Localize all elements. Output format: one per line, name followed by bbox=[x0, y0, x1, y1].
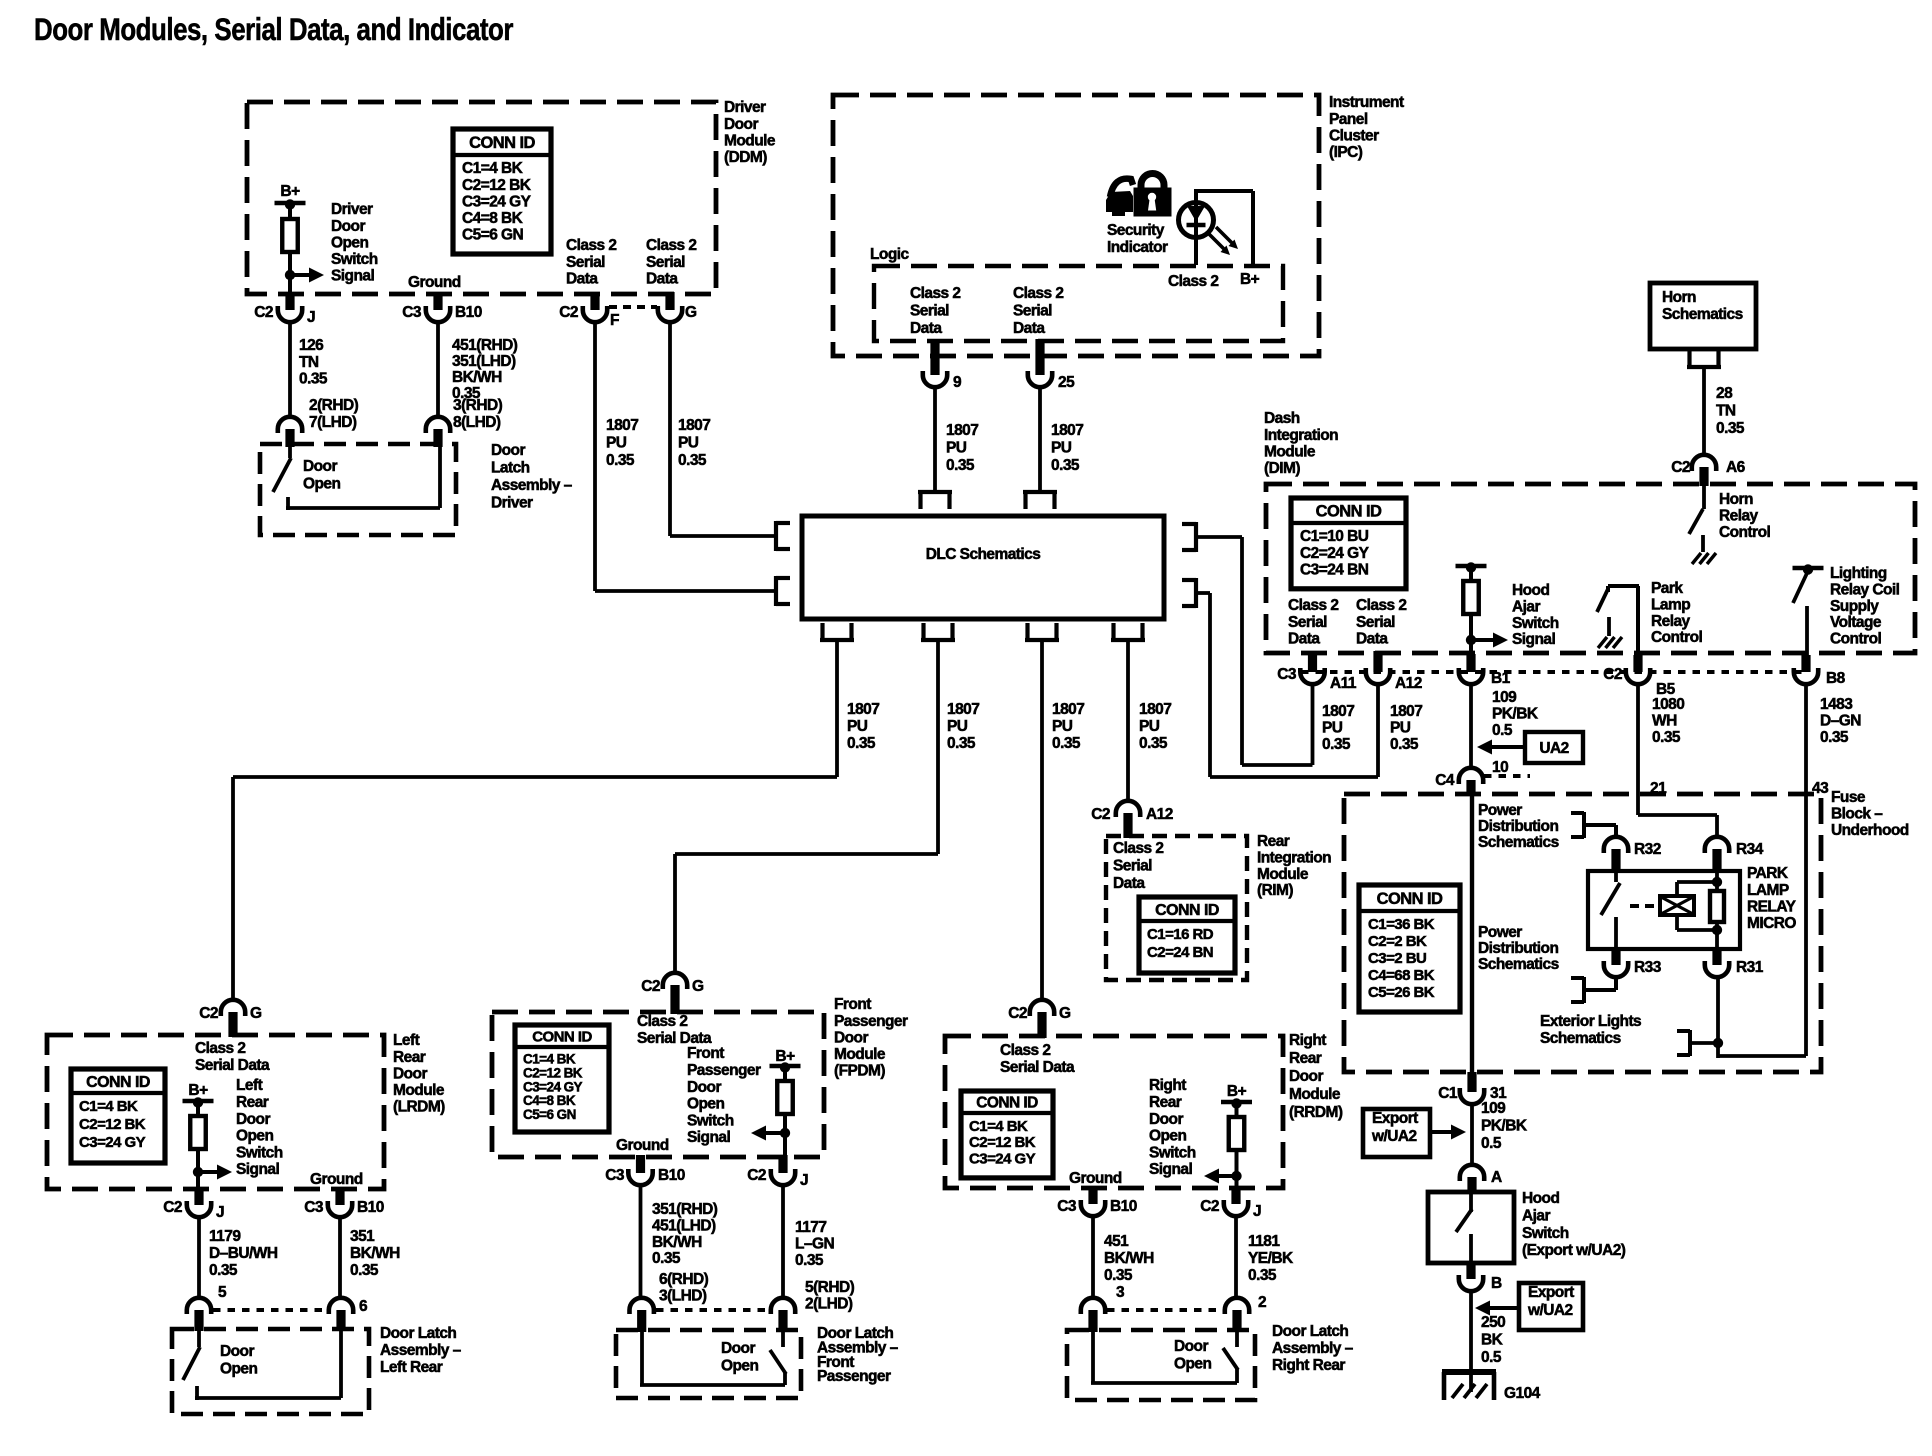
svg-text:C2=24 GY: C2=24 GY bbox=[1300, 545, 1370, 562]
label: Class 2 (LED drive) bbox=[1168, 273, 1218, 290]
svg-text:Rear: Rear bbox=[1257, 833, 1290, 850]
label: B+ (IPC) bbox=[1240, 271, 1260, 288]
label: Dash Integration Module (DIM) bbox=[1264, 410, 1338, 477]
option box: UA2 bbox=[1525, 732, 1583, 763]
svg-text:Data: Data bbox=[1288, 630, 1320, 647]
module box: Dash Integration Module (DIM) bbox=[1266, 484, 1915, 653]
svg-text:Relay: Relay bbox=[1719, 507, 1759, 524]
label: pin 43 bbox=[1812, 780, 1829, 797]
svg-text:w/UA2: w/UA2 bbox=[1527, 1302, 1573, 1319]
svg-text:Supply: Supply bbox=[1830, 598, 1879, 615]
connector R33 (park lamp relay) bbox=[1604, 949, 1662, 977]
svg-text:B+: B+ bbox=[280, 183, 300, 200]
svg-text:Signal: Signal bbox=[236, 1161, 279, 1178]
label: 1179 D-BU/WH 0.35 bbox=[209, 1228, 278, 1279]
title: Door Modules, Serial Data, and Indicator bbox=[34, 11, 513, 47]
label: Fuse Block - Underhood bbox=[1831, 789, 1909, 839]
svg-text:Class 2: Class 2 bbox=[637, 1013, 687, 1030]
svg-text:C2: C2 bbox=[1200, 1198, 1219, 1215]
svg-text:Serial: Serial bbox=[646, 254, 685, 271]
svg-text:PU: PU bbox=[1052, 718, 1073, 735]
svg-text:Hood: Hood bbox=[1522, 1190, 1559, 1207]
svg-text:F: F bbox=[610, 312, 619, 329]
label: pin 2(RHD) 7(LHD) bbox=[309, 397, 359, 431]
label: 1807 PU 0.35 (FPDM wire) bbox=[947, 701, 979, 752]
svg-text:1807: 1807 bbox=[1139, 701, 1171, 718]
wire: R31 to exterior lights feed bbox=[1692, 977, 1723, 1058]
svg-text:Exterior Lights: Exterior Lights bbox=[1540, 1013, 1641, 1030]
conn table: LRDM CONN ID bbox=[71, 1069, 165, 1163]
node: hood ajar signal junction bbox=[1466, 635, 1476, 645]
svg-text:CONN ID: CONN ID bbox=[1377, 890, 1443, 908]
dotted connector body line (right rear latch) bbox=[1107, 1308, 1223, 1312]
svg-text:PU: PU bbox=[947, 718, 968, 735]
component box: Door Latch Assembly - Right Rear bbox=[1067, 1330, 1255, 1400]
svg-text:C3=24 GY: C3=24 GY bbox=[523, 1079, 583, 1094]
svg-text:G: G bbox=[1059, 1005, 1071, 1022]
svg-text:0.5: 0.5 bbox=[1481, 1135, 1502, 1152]
svg-text:Door: Door bbox=[724, 116, 758, 133]
svg-text:TN: TN bbox=[1716, 402, 1736, 419]
label: Driver Door Module (DDM) bbox=[724, 99, 776, 166]
svg-text:C2: C2 bbox=[641, 978, 660, 995]
svg-text:Switch: Switch bbox=[1522, 1225, 1569, 1242]
wire: circuit 451 BK/WH (RRDM ground) bbox=[1091, 1216, 1095, 1298]
node: driver door open switch signal junction bbox=[285, 270, 295, 280]
connector pin A (hood ajar switch) bbox=[1460, 1165, 1502, 1194]
label: 1807 PU 0.35 (A12 wire) bbox=[1390, 703, 1422, 753]
svg-text:D–BU/WH: D–BU/WH bbox=[209, 1245, 278, 1262]
svg-text:PU: PU bbox=[1322, 719, 1343, 736]
svg-text:43: 43 bbox=[1812, 780, 1829, 797]
svg-text:Class 2: Class 2 bbox=[195, 1040, 245, 1057]
svg-text:B1: B1 bbox=[1491, 670, 1511, 687]
svg-text:(RIM): (RIM) bbox=[1257, 882, 1293, 899]
svg-text:G: G bbox=[692, 978, 704, 995]
pin: horn schematics output bbox=[1687, 350, 1721, 367]
label: Horn Relay Control bbox=[1719, 491, 1770, 541]
svg-text:1807: 1807 bbox=[1051, 422, 1083, 439]
svg-text:0.5: 0.5 bbox=[1492, 722, 1513, 739]
svg-text:Voltage: Voltage bbox=[1830, 614, 1882, 631]
label: 109 PK/BK 0.5 (export) bbox=[1481, 1100, 1528, 1152]
svg-text:Data: Data bbox=[566, 270, 598, 287]
label: 1807 PU 0.35 (pin F wire) bbox=[606, 417, 638, 469]
label: Right Rear Door Module (RRDM) bbox=[1289, 1032, 1343, 1121]
label: 126 TN 0.35 bbox=[299, 337, 328, 387]
svg-text:Front: Front bbox=[687, 1045, 724, 1062]
svg-text:B: B bbox=[1491, 1275, 1502, 1292]
component box: Door Latch Assembly - Front Passenger bbox=[616, 1330, 801, 1398]
svg-text:Door: Door bbox=[1174, 1338, 1208, 1355]
arrow: Front Passenger Door Open Switch Signal bbox=[687, 1045, 785, 1146]
label: 351(RHD) 451(LHD) BK/WH 0.35 bbox=[652, 1201, 718, 1267]
svg-text:C3=24 GY: C3=24 GY bbox=[969, 1150, 1036, 1167]
svg-text:J: J bbox=[307, 309, 315, 326]
pin: DLC bottom 4 bbox=[1111, 623, 1145, 640]
connector C2 pin J (RRDM) bbox=[1200, 1186, 1261, 1220]
svg-text:0.35: 0.35 bbox=[209, 1262, 238, 1279]
mechanical link (relay) bbox=[1630, 904, 1659, 908]
label: 1080 WH 0.35 bbox=[1652, 696, 1684, 746]
svg-text:Lighting: Lighting bbox=[1830, 565, 1887, 582]
component box: Door Latch Assembly - Left Rear bbox=[172, 1329, 369, 1414]
label: 250 BK 0.5 bbox=[1481, 1314, 1505, 1366]
svg-text:C2: C2 bbox=[199, 1005, 218, 1022]
svg-text:C2: C2 bbox=[1603, 666, 1622, 683]
svg-text:BK/WH: BK/WH bbox=[652, 1234, 702, 1251]
horn schematics reference box bbox=[1650, 283, 1756, 349]
svg-text:Serial Data: Serial Data bbox=[1000, 1059, 1075, 1076]
svg-text:(DDM): (DDM) bbox=[724, 149, 767, 166]
label: 1807 PU 0.35 (pin G wire) bbox=[678, 417, 710, 469]
connector C4 pin 10 (fuse block) bbox=[1435, 768, 1483, 796]
wire: signal to DDM pin J bbox=[288, 275, 292, 294]
conn table: DDM CONN ID bbox=[453, 129, 551, 254]
switch: Horn Relay Control driver bbox=[1689, 486, 1716, 564]
pin: DLC left 2 bbox=[776, 576, 790, 606]
pin: DLC top 1 bbox=[918, 492, 952, 509]
node: LRDM signal junction bbox=[193, 1167, 203, 1177]
label: Class 2 Serial Data (RIM) bbox=[1113, 840, 1163, 892]
resistor: right rear door open switch pull-up bbox=[1229, 1102, 1245, 1176]
svg-text:Power: Power bbox=[1478, 924, 1522, 941]
label: 109 PK/BK 0.5 bbox=[1492, 689, 1539, 739]
svg-text:1807: 1807 bbox=[1390, 703, 1422, 720]
svg-text:6: 6 bbox=[359, 1298, 368, 1315]
label: Power Distribution Schematics (top) bbox=[1478, 802, 1559, 851]
module box: Rear Integration Module (RIM) bbox=[1106, 836, 1247, 980]
svg-text:D–GN: D–GN bbox=[1820, 712, 1861, 729]
svg-text:Class 2: Class 2 bbox=[1013, 285, 1063, 302]
wire: 1807 PU DLC to RRDM bbox=[1040, 642, 1044, 1000]
svg-text:WH: WH bbox=[1652, 712, 1677, 729]
svg-text:B+: B+ bbox=[1240, 271, 1260, 288]
svg-text:1807: 1807 bbox=[1052, 701, 1084, 718]
svg-text:C2: C2 bbox=[559, 304, 578, 321]
conn table: RRDM CONN ID bbox=[961, 1091, 1053, 1178]
module box: Left Rear Door Module (LRDM) bbox=[47, 1035, 384, 1189]
svg-text:C2: C2 bbox=[1091, 806, 1110, 823]
label: Hood Ajar Switch (Export w/UA2) bbox=[1522, 1190, 1626, 1259]
svg-text:C1=4 BK: C1=4 BK bbox=[523, 1052, 576, 1067]
label: 1483 D-GN 0.35 bbox=[1820, 696, 1861, 746]
switch: Door Open (front passenger) bbox=[640, 1332, 786, 1385]
svg-text:C3=24 GY: C3=24 GY bbox=[462, 193, 532, 210]
resistor: hood ajar switch pull-up bbox=[1463, 566, 1479, 640]
connector C2 pin A12 (RIM) bbox=[1091, 801, 1173, 838]
svg-text:5(RHD): 5(RHD) bbox=[805, 1279, 855, 1296]
label: pin 21 bbox=[1650, 780, 1667, 797]
connector C3 pin A11 (DIM) bbox=[1277, 651, 1357, 692]
svg-text:0.35: 0.35 bbox=[678, 452, 707, 469]
svg-text:MICRO: MICRO bbox=[1747, 915, 1796, 932]
svg-text:CONN ID: CONN ID bbox=[532, 1028, 592, 1045]
label: Park Lamp Relay Control bbox=[1651, 580, 1702, 646]
label: Logic bbox=[870, 246, 910, 263]
svg-text:C3=2 BU: C3=2 BU bbox=[1368, 950, 1426, 967]
svg-text:R33: R33 bbox=[1634, 959, 1662, 976]
svg-text:C3: C3 bbox=[1057, 1198, 1077, 1215]
svg-text:A12: A12 bbox=[1146, 806, 1173, 823]
svg-text:C2: C2 bbox=[1671, 459, 1690, 476]
svg-text:109: 109 bbox=[1492, 689, 1517, 706]
wire: circuit 1177 L-GN bbox=[781, 1185, 785, 1298]
svg-text:0.35: 0.35 bbox=[1322, 736, 1351, 753]
svg-text:Open: Open bbox=[1149, 1128, 1186, 1145]
svg-text:Lamp: Lamp bbox=[1651, 596, 1690, 613]
connector C2 pin G (LRDM) bbox=[199, 1000, 262, 1037]
svg-text:351: 351 bbox=[350, 1228, 375, 1245]
svg-text:Module: Module bbox=[834, 1046, 886, 1063]
svg-text:0.35: 0.35 bbox=[1716, 420, 1745, 437]
conn table: RIM CONN ID bbox=[1139, 897, 1235, 973]
svg-text:Open: Open bbox=[331, 234, 368, 251]
svg-text:Class 2: Class 2 bbox=[1356, 597, 1406, 614]
switch: Lighting Relay Coil Supply Voltage Control bbox=[1793, 571, 1808, 657]
arrow: Driver Door Open Switch Signal bbox=[290, 201, 378, 284]
svg-text:Schematics: Schematics bbox=[1540, 1030, 1621, 1047]
svg-text:1807: 1807 bbox=[947, 701, 979, 718]
svg-text:Class 2: Class 2 bbox=[1168, 273, 1218, 290]
label: 1807 PU 0.35 (LRDM wire) bbox=[847, 701, 879, 752]
resistor: left rear door open switch pull-up bbox=[190, 1101, 206, 1172]
pointer bracket: exterior lights bbox=[1677, 1030, 1690, 1056]
svg-text:Export: Export bbox=[1372, 1110, 1418, 1127]
svg-text:BK/WH: BK/WH bbox=[1104, 1250, 1154, 1267]
svg-text:0.35: 0.35 bbox=[946, 457, 975, 474]
option box: Export w/UA2 (lower) bbox=[1519, 1283, 1583, 1330]
wire: LRDM signal to pin J bbox=[196, 1172, 200, 1189]
svg-text:Switch: Switch bbox=[1512, 615, 1559, 632]
wire: circuit 1181 YE/BK bbox=[1234, 1216, 1238, 1298]
connector C2 pin J (LRDM) bbox=[163, 1187, 224, 1221]
svg-text:Front: Front bbox=[834, 996, 871, 1013]
svg-text:C1: C1 bbox=[1438, 1085, 1458, 1102]
connector pin 25 (IPC) bbox=[1028, 339, 1075, 391]
label: Security Indicator bbox=[1107, 222, 1168, 256]
svg-text:Security: Security bbox=[1107, 222, 1165, 239]
svg-text:L–GN: L–GN bbox=[795, 1235, 834, 1252]
svg-text:PU: PU bbox=[1390, 719, 1411, 736]
conn table: FPDM CONN ID bbox=[515, 1025, 609, 1132]
svg-text:w/UA2: w/UA2 bbox=[1371, 1128, 1417, 1145]
svg-text:Switch: Switch bbox=[687, 1112, 734, 1129]
svg-text:TN: TN bbox=[299, 354, 319, 371]
dotted connector body line (DIM bottom row) bbox=[1301, 670, 1806, 674]
svg-text:9: 9 bbox=[953, 374, 962, 391]
svg-text:Signal: Signal bbox=[1512, 631, 1555, 648]
svg-text:Hood: Hood bbox=[1512, 582, 1549, 599]
label: Class 2 Serial Data (IPC pin 25) bbox=[1013, 285, 1063, 337]
label: Door Latch Assembly - Front Passenger bbox=[817, 1325, 899, 1385]
label: 1181 YE/BK 0.35 bbox=[1248, 1233, 1294, 1284]
svg-text:Block –: Block – bbox=[1831, 805, 1883, 822]
component box: DLC Schematics bbox=[802, 516, 1164, 619]
wire: circuit 351/451 BK/WH (FPDM ground) bbox=[639, 1185, 643, 1298]
label: DLC Schematics bbox=[926, 546, 1041, 563]
svg-text:Passenger: Passenger bbox=[687, 1062, 761, 1079]
svg-text:351(RHD): 351(RHD) bbox=[652, 1201, 718, 1218]
svg-text:C3=24 BN: C3=24 BN bbox=[1300, 561, 1369, 578]
label: Class 2 Serial Data (DDM pin F) bbox=[566, 237, 616, 287]
svg-text:(RRDM): (RRDM) bbox=[1289, 1104, 1343, 1121]
svg-text:C1=4 BK: C1=4 BK bbox=[462, 160, 524, 177]
svg-text:Signal: Signal bbox=[331, 268, 374, 285]
arrow: Right Rear Door Open Switch Signal bbox=[1149, 1077, 1237, 1183]
svg-text:DLC Schematics: DLC Schematics bbox=[926, 546, 1041, 563]
svg-text:BK: BK bbox=[1481, 1331, 1504, 1348]
svg-text:Control: Control bbox=[1830, 630, 1881, 647]
connector C2 pin F (DDM) bbox=[559, 292, 619, 329]
svg-text:1179: 1179 bbox=[209, 1228, 241, 1245]
switch: hood ajar bbox=[1456, 1192, 1472, 1263]
connector C1 pin 31 (fuse block) bbox=[1438, 1072, 1507, 1104]
svg-text:J: J bbox=[1253, 1203, 1261, 1220]
svg-text:PU: PU bbox=[946, 439, 967, 456]
svg-text:Driver: Driver bbox=[331, 201, 373, 218]
icon: security indicator (car and padlock) bbox=[1106, 174, 1171, 217]
svg-text:A6: A6 bbox=[1726, 459, 1746, 476]
svg-text:Dash: Dash bbox=[1264, 410, 1300, 427]
label: Class 2 Serial Data (DDM pin G) bbox=[646, 237, 696, 287]
wire: 109 PK/BK to hood ajar switch bbox=[1470, 1104, 1474, 1165]
connector pin 9 (IPC) bbox=[923, 339, 962, 391]
svg-text:Module: Module bbox=[1289, 1086, 1341, 1103]
svg-text:Integration: Integration bbox=[1257, 849, 1331, 866]
svg-text:Door: Door bbox=[491, 442, 525, 459]
connector C2 pin A6 (horn relay control) bbox=[1671, 455, 1745, 486]
pin: DLC left 1 bbox=[776, 521, 790, 551]
arrow: export option applies (ground side) bbox=[1475, 1301, 1519, 1316]
svg-text:Open: Open bbox=[236, 1128, 273, 1145]
label: pins 5(RHD) 2(LHD) bbox=[805, 1279, 855, 1312]
label: 1177 L-GN 0.35 bbox=[795, 1219, 834, 1269]
svg-text:Horn: Horn bbox=[1719, 491, 1753, 508]
switch: Park Lamp Relay Control driver bbox=[1597, 586, 1639, 657]
logic box (IPC) bbox=[874, 266, 1283, 341]
wire: 1807 PU pin 9 to DLC bbox=[933, 387, 937, 492]
pin: DLC right 1 bbox=[1182, 522, 1196, 552]
svg-text:7(LHD): 7(LHD) bbox=[309, 414, 357, 431]
module box: Fuse Block - Underhood bbox=[1344, 794, 1821, 1072]
B+ supply symbol (DDM) bbox=[275, 183, 306, 210]
svg-text:C2=24 BN: C2=24 BN bbox=[1147, 944, 1213, 961]
svg-text:Schematics: Schematics bbox=[1478, 834, 1559, 851]
svg-text:6(RHD): 6(RHD) bbox=[659, 1271, 709, 1288]
svg-text:Module: Module bbox=[1257, 866, 1309, 883]
wire: FPDM signal to pin J bbox=[783, 1133, 787, 1157]
label: Instrument Panel Cluster (IPC) bbox=[1329, 94, 1404, 161]
svg-text:Ajar: Ajar bbox=[1522, 1207, 1550, 1224]
svg-text:Switch: Switch bbox=[1149, 1144, 1196, 1161]
svg-text:C3: C3 bbox=[402, 304, 422, 321]
label: Door Latch Assembly - Left Rear bbox=[380, 1325, 462, 1376]
label: Class 2 Serial Data (RRDM) bbox=[1000, 1042, 1075, 1076]
svg-text:CONN ID: CONN ID bbox=[1316, 502, 1382, 520]
svg-text:Open: Open bbox=[687, 1096, 724, 1113]
label: Ground (FPDM) bbox=[616, 1137, 669, 1154]
svg-text:C2: C2 bbox=[163, 1199, 182, 1216]
connector pin B1 (DIM) bbox=[1459, 654, 1511, 687]
svg-text:C3: C3 bbox=[605, 1167, 625, 1184]
svg-text:Passenger: Passenger bbox=[817, 1368, 891, 1385]
svg-text:Class 2: Class 2 bbox=[910, 285, 960, 302]
svg-text:Module: Module bbox=[393, 1082, 445, 1099]
wire: circuit 28 TN bbox=[1702, 369, 1706, 455]
label: 1807 PU 0.35 (RRDM wire) bbox=[1052, 701, 1084, 752]
svg-text:250: 250 bbox=[1481, 1314, 1505, 1331]
svg-text:Assembly –: Assembly – bbox=[380, 1342, 462, 1359]
node: FPDM signal junction bbox=[780, 1128, 790, 1138]
svg-text:0.35: 0.35 bbox=[1248, 1267, 1277, 1284]
label: Class 2 Serial Data (DIM A11) bbox=[1288, 597, 1338, 647]
wire: circuit 1080 WH from B5 bbox=[1638, 684, 1717, 837]
label: 451 BK/WH 0.35 (RRDM) bbox=[1104, 1233, 1154, 1284]
wire: exterior lights loop to B8 feed bbox=[1718, 796, 1806, 1056]
svg-text:Door: Door bbox=[1149, 1111, 1183, 1128]
label: Door Open (front passenger latch) bbox=[721, 1340, 758, 1375]
svg-text:3(LHD): 3(LHD) bbox=[659, 1287, 707, 1304]
svg-text:UA2: UA2 bbox=[1539, 740, 1568, 757]
svg-text:J: J bbox=[216, 1204, 224, 1221]
label: Class 2 Serial Data (IPC pin 9) bbox=[910, 285, 960, 337]
connector C2 pin J (FPDM) bbox=[747, 1155, 808, 1189]
wire: 1807 PU from DDM pin G to DLC bbox=[670, 322, 776, 536]
svg-text:Cluster: Cluster bbox=[1329, 127, 1379, 144]
connector pin 5 (left rear latch) bbox=[187, 1298, 211, 1331]
svg-text:BK/WH: BK/WH bbox=[452, 369, 502, 386]
module box: Front Passenger Door Module (FPDM) bbox=[492, 1012, 824, 1157]
svg-text:Class 2: Class 2 bbox=[646, 237, 696, 254]
svg-text:Door: Door bbox=[303, 458, 337, 475]
svg-text:(Export w/UA2): (Export w/UA2) bbox=[1522, 1242, 1626, 1259]
svg-text:C3=24 GY: C3=24 GY bbox=[79, 1134, 146, 1151]
svg-text:0.35: 0.35 bbox=[847, 735, 876, 752]
connector C3 pin B10 (LRDM) bbox=[304, 1187, 384, 1217]
svg-text:Relay: Relay bbox=[1651, 613, 1691, 630]
switch: park lamp relay contacts bbox=[1601, 871, 1620, 949]
svg-text:C5=6 GN: C5=6 GN bbox=[462, 227, 524, 244]
label: Exterior Lights Schematics bbox=[1540, 1013, 1641, 1047]
svg-text:Assembly –: Assembly – bbox=[1272, 1340, 1354, 1357]
svg-text:Park: Park bbox=[1651, 580, 1683, 597]
node: RRDM signal junction bbox=[1231, 1171, 1241, 1181]
svg-text:Driver: Driver bbox=[724, 99, 766, 116]
svg-text:C5=26 BK: C5=26 BK bbox=[1368, 984, 1435, 1001]
connector C2 pin G (RRDM) bbox=[1008, 1000, 1071, 1038]
svg-text:Schematics: Schematics bbox=[1478, 956, 1559, 973]
label: 1807 PU 0.35 (pin 9 wire) bbox=[946, 422, 978, 474]
svg-text:CONN ID: CONN ID bbox=[86, 1074, 150, 1091]
svg-text:PU: PU bbox=[847, 718, 868, 735]
wire: A11 to DLC junction bbox=[1311, 684, 1315, 765]
svg-text:0.35: 0.35 bbox=[299, 370, 328, 387]
label: pins 6(RHD) 3(LHD) bbox=[659, 1271, 709, 1304]
wire: 1807 PU DLC to FPDM bbox=[675, 642, 938, 973]
wire: circuit 1179 D-BU/WH bbox=[197, 1217, 201, 1298]
dotted connector body line (C4 row) bbox=[1484, 774, 1530, 778]
label: pin 3 (RRDM) bbox=[1116, 1284, 1125, 1301]
svg-text:0.35: 0.35 bbox=[1820, 729, 1849, 746]
svg-text:Open: Open bbox=[1174, 1356, 1211, 1373]
wire: DLC right pin 1 to DIM A11 bbox=[1196, 537, 1313, 765]
svg-text:Module: Module bbox=[1264, 443, 1316, 460]
svg-text:1807: 1807 bbox=[678, 417, 710, 434]
wire: hood ajar signal to pin B1 bbox=[1469, 640, 1473, 654]
svg-text:Data: Data bbox=[646, 270, 678, 287]
svg-text:B+: B+ bbox=[188, 1082, 208, 1099]
